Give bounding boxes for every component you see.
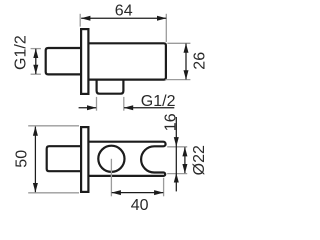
holder arm with C-clip (side view) [87, 142, 166, 176]
svg-text:26: 26 [191, 52, 208, 70]
svg-text:Ø22: Ø22 [191, 145, 208, 175]
dim G1/2 bottom: left segment with right-pointing arrow [79, 107, 97, 109]
dim Ø22 double arrow [184, 147, 186, 173]
dim 64 line [81, 17, 166, 19]
dim 16/Ø22 ticks [167, 146, 187, 148]
dim 16 leader with down arrow [175, 117, 177, 191]
wall flange (side view) [81, 127, 88, 192]
dim 40 extension lines [110, 159, 112, 197]
dim 40 line [112, 192, 164, 194]
svg-text:16: 16 [162, 113, 179, 131]
svg-text:50: 50 [14, 150, 31, 168]
pivot ball circle [98, 146, 124, 172]
dim 50 ticks [28, 125, 79, 127]
dim G1/2 bottom: right segment with left-pointing arrow [124, 107, 174, 109]
outlet stub G1/2 (top view) [97, 78, 124, 94]
G1/2 wall stub (side view) [47, 146, 85, 171]
wall flange (top view) [81, 29, 88, 94]
body (top view) [86, 43, 166, 79]
dim 64 extension lines [79, 14, 81, 27]
dim G1/2 bottom: extension lines [96, 97, 98, 111]
up arrow below clip [174, 173, 179, 183]
dim 26 line [185, 44, 187, 80]
svg-text:40: 40 [131, 197, 149, 214]
dim 50 line [34, 127, 36, 193]
svg-text:G1/2: G1/2 [12, 35, 29, 70]
G1/2 wall stub (top view) [46, 48, 85, 74]
dim G1/2 ticks (left) [31, 48, 41, 50]
svg-text:G1/2: G1/2 [141, 93, 176, 110]
dim G1/2 double arrow (left) [35, 49, 37, 74]
dim 26 ticks [167, 42, 190, 44]
svg-text:64: 64 [115, 3, 133, 20]
